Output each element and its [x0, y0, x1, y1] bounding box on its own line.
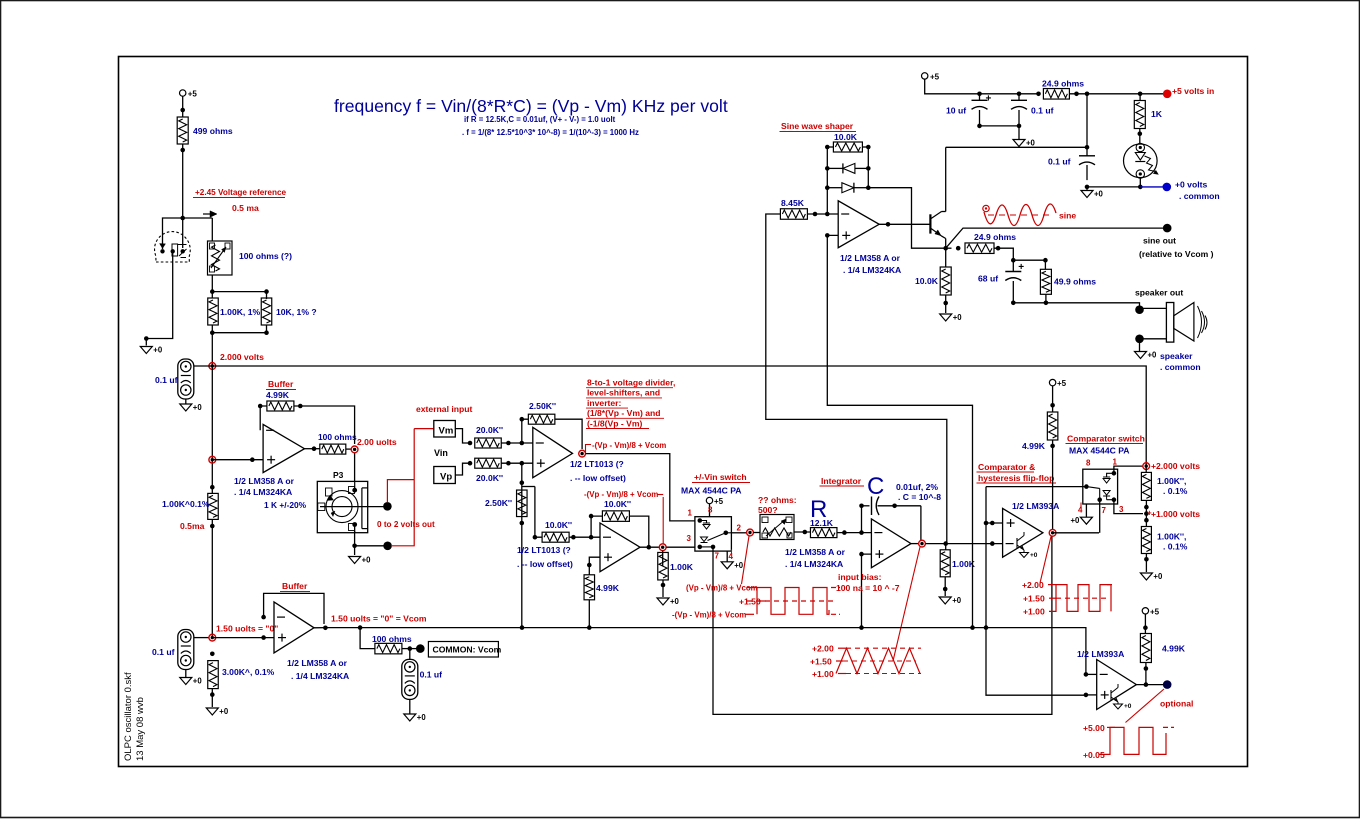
svg-text:Buffer: Buffer: [268, 379, 294, 389]
switch U7 MAX4544 box: [1083, 469, 1118, 504]
svg-text:Buffer: Buffer: [282, 581, 308, 591]
resistor 100 ohms: [320, 444, 346, 454]
wire: [194, 637, 209, 639]
wire pin1 to +2.000 node: [1114, 466, 1143, 473]
junction: [264, 289, 269, 294]
resistor 20.0K lower: [475, 458, 502, 468]
svg-text:(relative to Vcom ): (relative to Vcom ): [1139, 249, 1214, 259]
wire comp out: [1053, 532, 1099, 534]
box COMMON: Vcom: [428, 642, 498, 658]
wire: [212, 637, 274, 639]
svg-text:+2.00: +2.00: [1022, 580, 1044, 590]
speaker symbol: [1166, 303, 1173, 343]
junction: [210, 330, 215, 335]
ground: [180, 404, 192, 411]
resistor 1.00K 1%: [208, 298, 219, 325]
svg-text:(Vp - Vm)/8 + Vcom: (Vp - Vm)/8 + Vcom: [686, 584, 758, 593]
wire: [182, 96, 184, 117]
svg-text:1.00K: 1.00K: [670, 562, 694, 572]
LED photocell assembly: [1124, 144, 1158, 178]
wire: [1139, 129, 1141, 144]
svg-text:0.1 uf: 0.1 uf: [1031, 106, 1054, 116]
svg-text:13 May 08 wvb: 13 May 08 wvb: [135, 697, 146, 761]
svg-text:. common: . common: [1160, 362, 1201, 372]
svg-text:+0: +0: [734, 561, 744, 570]
svg-text:OLPC oscillator 0.skf: OLPC oscillator 0.skf: [123, 672, 134, 761]
svg-text:0.1 uf: 0.1 uf: [1048, 157, 1071, 167]
svg-text:Vin: Vin: [434, 448, 448, 458]
svg-text:7: 7: [1102, 506, 1107, 515]
wire 8.45K left riser: [766, 214, 947, 544]
wire: [709, 504, 711, 517]
op-amp U6 1/2 LM393 comparator: [1003, 508, 1043, 557]
terminal pot out: [383, 502, 392, 511]
ground switch2: [1085, 504, 1087, 517]
open collector glyph 2: [1110, 690, 1112, 700]
wire: [1087, 186, 1140, 188]
resistor 20.0K upper: [475, 438, 502, 448]
wire: [211, 218, 213, 241]
current arrow: [210, 211, 217, 217]
svg-text:2: 2: [737, 524, 742, 533]
svg-text:. 1/4 LM324KA: . 1/4 LM324KA: [843, 265, 901, 275]
svg-text:inverter:: inverter:: [587, 398, 622, 408]
waveform bottom square: [1099, 727, 1166, 754]
svg-text:-(Vp - Vm)/8 + Vcom: -(Vp - Vm)/8 + Vcom: [592, 441, 666, 450]
terminal speaker common: [1135, 335, 1144, 344]
resistor 1K: [1139, 94, 1141, 100]
terminal optional out: [1163, 680, 1172, 689]
op-amp U8 buffer2 1/2 LM358: [274, 602, 314, 653]
wire: [1052, 440, 1054, 529]
junction: [180, 216, 185, 221]
diode D2: [842, 183, 854, 193]
svg-text:2.000 volts: 2.000 volts: [220, 352, 264, 362]
wire: [794, 531, 810, 533]
red pointer comp: [1040, 537, 1051, 584]
capacitor 0.1 uf (rail): [1017, 92, 1022, 97]
svg-text:49.9 ohms: 49.9 ohms: [1054, 277, 1096, 287]
wire: [212, 292, 266, 299]
svg-text:1 K +/-20%: 1 K +/-20%: [264, 500, 307, 510]
svg-text:. 1/4 LM324KA: . 1/4 LM324KA: [785, 559, 843, 569]
ground: [185, 670, 187, 678]
wire: [409, 699, 411, 713]
resistor 49.9 ohms: [1044, 260, 1046, 269]
junction: [250, 457, 255, 462]
resistor 3.00K: [208, 661, 219, 689]
svg-text:+1.00: +1.00: [812, 669, 834, 679]
svg-text:. common: . common: [1179, 191, 1220, 201]
svg-text:COMMON: Vcom: COMMON: Vcom: [433, 645, 502, 655]
svg-text:10.0K: 10.0K: [915, 276, 939, 286]
wire: [212, 325, 266, 333]
open collector glyph: [1016, 538, 1018, 548]
svg-text:24.9 ohms: 24.9 ohms: [1042, 79, 1084, 89]
svg-text:+5 volts in: +5 volts in: [1172, 86, 1214, 96]
svg-text:input bias:: input bias:: [838, 572, 882, 582]
svg-text:0.5ma: 0.5ma: [180, 521, 205, 531]
svg-text:0.1 uf: 0.1 uf: [155, 375, 178, 385]
junction: [210, 485, 215, 490]
wire left bus: [211, 366, 213, 494]
svg-text:sine: sine: [1059, 211, 1076, 221]
ground: [1086, 187, 1088, 191]
svg-text:Vm: Vm: [439, 426, 454, 437]
svg-text:20.0K'': 20.0K'': [476, 473, 503, 483]
svg-text:1/2 LM393A: 1/2 LM393A: [1012, 501, 1059, 511]
capacitor 0.1uf (vcom): [409, 649, 411, 660]
wire: [1144, 614, 1146, 633]
svg-text:68 uf: 68 uf: [978, 274, 998, 284]
svg-text:+0: +0: [1094, 190, 1104, 199]
wire Vcom bus: [325, 628, 1086, 675]
op-amp U10 1/2 LM393 (2): [1097, 660, 1137, 710]
wire: [588, 600, 590, 628]
svg-text:+1.00: +1.00: [1023, 607, 1045, 617]
resistor 499 ohms: [177, 117, 188, 144]
wire: [1140, 307, 1167, 309]
svg-text:8: 8: [1086, 459, 1091, 468]
capacitor 0.1 uf (led): [1086, 147, 1088, 156]
wire + input: [589, 557, 600, 575]
wire output: [305, 448, 320, 450]
box Vm: [434, 421, 456, 438]
node comp1 out: [1049, 529, 1056, 536]
trimpot 100 ohms: [208, 241, 233, 275]
wire output to switch: [586, 454, 695, 521]
svg-text:10.0K: 10.0K: [834, 132, 858, 142]
ground: [1013, 140, 1025, 147]
wire output: [314, 627, 325, 629]
svg-text:+0: +0: [417, 713, 427, 722]
svg-text:. 0.1%: . 0.1%: [1163, 542, 1188, 552]
svg-text:8-to-1 voltage divider,: 8-to-1 voltage divider,: [587, 378, 675, 388]
wire feedback: [260, 406, 267, 430]
resistor 4.99K comp: [1047, 412, 1058, 440]
svg-text:sine out: sine out: [1143, 236, 1176, 246]
ground: [404, 714, 416, 721]
svg-text:1: 1: [1113, 458, 1118, 467]
wire to 100 ohms: [360, 628, 375, 649]
wire pin2 out: [731, 532, 746, 534]
wire: [1145, 663, 1147, 685]
wire Vm to resistor: [455, 429, 470, 443]
wire: [355, 545, 388, 547]
svg-text:?? ohms:: ?? ohms:: [758, 495, 797, 505]
svg-text:. -- low offset): . -- low offset): [570, 473, 626, 483]
svg-text:499 ohms: 499 ohms: [193, 126, 233, 136]
red pointer optional: [1126, 689, 1165, 723]
wire: [1086, 694, 1097, 696]
red elbow label -(Vp-Vm)/8+Vcom: [586, 445, 592, 454]
resistor 1.00K (integrator): [945, 544, 947, 550]
terminal sine out: [1163, 224, 1172, 233]
svg-text:100 ohms (?): 100 ohms (?): [239, 251, 292, 261]
node +2.000 volts: [1143, 463, 1150, 470]
svg-text:+1.50: +1.50: [1023, 594, 1045, 604]
wire: [994, 248, 1013, 260]
wire collector: [942, 211, 946, 213]
svg-text:100 ohms: 100 ohms: [372, 634, 412, 644]
svg-text:+: +: [1147, 509, 1152, 518]
comparator ground: [1023, 550, 1025, 553]
wire: [183, 217, 213, 219]
svg-text:2.50K'': 2.50K'': [485, 498, 512, 508]
resistor 10.0K emitter: [940, 267, 951, 295]
wire + input feed: [1084, 672, 1089, 677]
svg-text:level-shifters, and: level-shifters, and: [587, 388, 660, 398]
wire + input riser: [827, 235, 972, 627]
svg-text:2.00 uolts: 2.00 uolts: [357, 437, 397, 447]
svg-text:3: 3: [687, 534, 692, 543]
junction: [352, 544, 357, 549]
svg-text:+0: +0: [219, 707, 229, 716]
ground: [940, 314, 952, 321]
wire cap grounds: [980, 125, 1020, 127]
svg-text:0 to 2 volts out: 0 to 2 volts out: [377, 520, 435, 529]
junction: [210, 524, 215, 529]
wire output: [879, 223, 930, 225]
svg-text:hysteresis flip-flop: hysteresis flip-flop: [978, 473, 1054, 483]
wire: [294, 406, 355, 444]
svg-text:+0: +0: [153, 346, 163, 355]
svg-text:. 0.1%: . 0.1%: [1163, 486, 1188, 496]
resistor 8.45K: [780, 209, 807, 220]
svg-text:100 na = 10 ^ -7: 100 na = 10 ^ -7: [836, 583, 900, 593]
svg-text:1K: 1K: [1151, 109, 1163, 119]
terminal common: [416, 644, 425, 653]
svg-text:+0: +0: [670, 597, 680, 606]
svg-text:+2.45 Voltage reference: +2.45 Voltage reference: [195, 188, 287, 197]
svg-text:P3: P3: [333, 470, 344, 480]
op-amp U2 1/2 LT1013: [533, 427, 573, 477]
node +1.000 volts: [1144, 511, 1149, 516]
wire: [1140, 338, 1167, 340]
svg-text:1/2 LT1013 (?: 1/2 LT1013 (?: [517, 545, 571, 555]
svg-text:+: +: [1018, 262, 1024, 273]
junction: [144, 336, 149, 341]
wire: [945, 295, 947, 313]
svg-text:+1.000 volts: +1.000 volts: [1151, 509, 1200, 519]
resistor 2.50K feedback: [528, 414, 555, 424]
svg-text:. 1/4 LM324KA: . 1/4 LM324KA: [234, 487, 292, 497]
wire: [753, 532, 760, 534]
wire: [354, 453, 356, 481]
node 2.000 volts: [209, 363, 216, 370]
svg-text:Comparator switch: Comparator switch: [1067, 434, 1145, 444]
terminal +5 comp: [1049, 379, 1055, 385]
wire: [837, 532, 871, 534]
svg-text:+0: +0: [1148, 351, 1158, 360]
resistor 4.99K feedback: [267, 401, 294, 411]
svg-text:+0: +0: [1124, 703, 1132, 710]
svg-text:Comparator &: Comparator &: [978, 462, 1035, 472]
capacitor 0.1uf (bottom left): [178, 630, 194, 670]
wire sine out diagonal: [946, 228, 1163, 248]
svg-text:+0: +0: [193, 403, 203, 412]
waveform comparator square: [1056, 597, 1110, 599]
svg-text:1/2 LM358 A or: 1/2 LM358 A or: [234, 476, 295, 486]
resistor 24.9 ohms (sine): [946, 247, 952, 249]
terminal speaker out: [1135, 305, 1144, 314]
resistor 1.00K^0.1%: [208, 493, 219, 519]
svg-text:Integrator: Integrator: [821, 476, 862, 486]
svg-text:10.0K'': 10.0K'': [604, 499, 631, 509]
wire: [1145, 500, 1147, 526]
wire pot wiper to terminal: [383, 506, 385, 508]
waveform square wave: [747, 600, 833, 602]
wire: [501, 462, 533, 464]
svg-text:20.0K'': 20.0K'': [476, 425, 503, 435]
svg-text:1/2 LM393A: 1/2 LM393A: [1077, 649, 1124, 659]
svg-text:1/2 LM358 A or: 1/2 LM358 A or: [840, 253, 901, 263]
svg-text:+0: +0: [1026, 139, 1036, 148]
svg-text:1.00K, 1%: 1.00K, 1%: [220, 307, 260, 317]
svg-text:+0 volts: +0 volts: [1175, 180, 1207, 190]
wire pin3: [1114, 500, 1143, 514]
svg-text:1.00K^0.1%: 1.00K^0.1%: [162, 499, 210, 509]
svg-text:0.01uf, 2%: 0.01uf, 2%: [896, 482, 938, 492]
wire: [662, 580, 664, 597]
svg-text:-(Vp - Vm)/8 + Vcom: -(Vp - Vm)/8 + Vcom: [672, 611, 746, 620]
svg-text:+5.00: +5.00: [1083, 723, 1105, 733]
wire: [807, 213, 838, 215]
svg-text:MAX 4544C PA: MAX 4544C PA: [681, 486, 742, 496]
comparator2 ground: [1117, 702, 1119, 704]
junction: [468, 441, 473, 446]
svg-text:+2.000 volts: +2.000 volts: [1151, 461, 1200, 471]
wire output2 to switch pin3: [666, 546, 695, 548]
op-amp U5 integrator 1/2 LM358: [871, 519, 911, 568]
svg-text:1.50 uolts = "0" = Vcom: 1.50 uolts = "0" = Vcom: [331, 614, 427, 624]
svg-text:(1/8*(Vp - Vm) and: (1/8*(Vp - Vm) and: [587, 408, 661, 418]
red wire external input: [387, 480, 414, 503]
svg-text:+0: +0: [1153, 572, 1163, 581]
resistor 1.00K'' lower: [1141, 527, 1151, 554]
svg-text:4: 4: [1078, 506, 1083, 515]
svg-text:external input: external input: [416, 404, 472, 414]
terminal +5 (bottom right): [1142, 608, 1148, 614]
svg-text:500?: 500?: [758, 505, 778, 515]
svg-text:. -- low offset): . -- low offset): [517, 559, 573, 569]
capacitor 10 uf: [977, 92, 982, 97]
wire + input to Vcom: [862, 554, 872, 628]
resistor 1.00K pulldown: [658, 552, 669, 580]
diode D1: [843, 163, 855, 173]
wire: [1145, 554, 1147, 573]
svg-text:8.45K: 8.45K: [781, 198, 805, 208]
resistor 10K 1%: [261, 298, 272, 325]
wire emitter branch down: [945, 248, 947, 267]
junction: [210, 652, 215, 657]
wire + input bus: [986, 487, 1086, 696]
svg-text:. 1/4 LM324KA: . 1/4 LM324KA: [291, 671, 349, 681]
wire: [569, 536, 600, 538]
svg-text:0.1 uf: 0.1 uf: [152, 647, 175, 657]
svg-text:1/2 LT1013 (?: 1/2 LT1013 (?: [570, 459, 624, 469]
svg-text:+0: +0: [952, 596, 962, 605]
wire diode network right: [862, 146, 868, 148]
wire: [185, 399, 187, 404]
red pointer: [742, 536, 750, 584]
terminal +5 power: [922, 73, 928, 79]
transistor Q1 NPN: [929, 214, 931, 233]
ground: [657, 598, 669, 605]
svg-text:+5: +5: [1057, 379, 1067, 388]
svg-text:+5: +5: [930, 73, 940, 82]
wire: [212, 459, 263, 461]
waveform triangle: [846, 647, 921, 649]
red wire to label: [662, 497, 664, 544]
svg-text:24.9 ohms: 24.9 ohms: [974, 232, 1016, 242]
ground pin4: [726, 551, 728, 562]
wire: [1069, 93, 1163, 95]
svg-text:optional: optional: [1160, 699, 1193, 709]
wire: [211, 325, 213, 366]
wire to output: [868, 188, 945, 249]
svg-text:(-1/8(Vp - Vm): (-1/8(Vp - Vm): [587, 418, 643, 428]
svg-text:+/-Vin switch: +/-Vin switch: [694, 472, 747, 482]
wire: [211, 275, 213, 298]
wire switch2 common to comparators: [986, 486, 1086, 488]
svg-text:12.1K: 12.1K: [810, 518, 834, 528]
wire cap branch: [861, 506, 863, 533]
wire pot bottom: [354, 531, 356, 555]
switch U4 MAX4544 box: [695, 517, 732, 551]
svg-text:. f = 1/(8* 12.5*10^3* 10^-8): . f = 1/(8* 12.5*10^3* 10^-8) = 1/(10^-3…: [462, 128, 639, 137]
junction: [468, 461, 473, 466]
ground: [1140, 573, 1152, 580]
svg-text:3: 3: [1119, 505, 1124, 514]
capacitor 68 uf: [1012, 260, 1014, 271]
terminal lower: [383, 542, 392, 551]
svg-text:speaker out: speaker out: [1135, 288, 1183, 298]
node buffer input: [209, 456, 216, 463]
ground: [349, 557, 361, 564]
wire: [146, 251, 172, 345]
svg-text:+5: +5: [188, 90, 198, 99]
wire + input: [986, 522, 1003, 524]
terminal +5: [706, 497, 712, 503]
svg-text:Sine wave shaper: Sine wave shaper: [781, 121, 854, 131]
svg-text:1/2 LM358 A or: 1/2 LM358 A or: [287, 658, 348, 668]
svg-text:+5: +5: [714, 497, 724, 506]
resistor 10.0K input: [542, 532, 569, 542]
svg-text:4.99K: 4.99K: [1022, 441, 1046, 451]
op-amp2 output wire: [640, 546, 659, 548]
svg-text:4.99K: 4.99K: [596, 583, 620, 593]
wire feedback left: [591, 516, 602, 537]
trimpot ?? ohms 500?: [760, 515, 794, 540]
resistor 2.50K vertical: [517, 490, 528, 517]
resistor 24.9 ohms (rail): [1043, 89, 1069, 100]
svg-text:3.00K^, 0.1%: 3.00K^, 0.1%: [222, 667, 275, 677]
svg-text:10.0K'': 10.0K'': [545, 520, 572, 530]
svg-text:. C = 10^-8: . C = 10^-8: [898, 492, 941, 502]
node 2.00 volts: [346, 448, 351, 450]
svg-text:1.00K'',: 1.00K'',: [1157, 532, 1186, 542]
junction: [312, 446, 317, 451]
node output: [579, 450, 586, 457]
node integrator out: [911, 543, 918, 545]
svg-text:4.99K: 4.99K: [266, 390, 290, 400]
capacitor 0.1uf (top left bypass): [178, 359, 194, 399]
svg-text:4.99K: 4.99K: [1162, 644, 1186, 654]
junction: [180, 108, 185, 113]
wire feedback buffer2: [264, 593, 324, 624]
wire left bus lower: [211, 519, 213, 637]
